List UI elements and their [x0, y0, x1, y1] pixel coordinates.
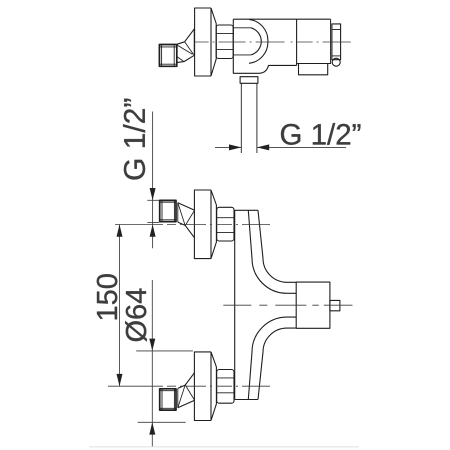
- label G 1/2 horizontal: [281, 123, 360, 145]
- faint page rule at bottom: [89, 446, 359, 448]
- side view: lever handle bar: [332, 24, 341, 60]
- side view: lever ball end: [332, 58, 340, 66]
- side view: wall flange disc: [195, 8, 211, 76]
- D64 top extension line: [136, 350, 193, 352]
- front view: body top edge: [235, 209, 258, 211]
- label 150: [97, 274, 118, 319]
- front view: top hex nut: [217, 207, 234, 241]
- front view: body bottom edge: [235, 399, 258, 401]
- label G 1/2 vertical: [123, 99, 145, 180]
- dimension: G 1/2 pipe, horizontal line: [215, 146, 346, 148]
- side view: body dome inner arc: [251, 28, 261, 55]
- arrow up D64 bottom: [149, 422, 155, 434]
- front view: bottom flange disc: [194, 352, 211, 421]
- side view: outlet pipe: [240, 83, 242, 153]
- dimension 150 line: [119, 225, 121, 387]
- front view: handle stub: [330, 300, 340, 310]
- dimension: G 1/2 vertical leader line: [152, 112, 154, 249]
- arrow up 150 top: [117, 225, 123, 237]
- side view: valve body: [233, 18, 330, 20]
- side view: hex nut: [216, 25, 233, 59]
- front view: top square nipple: [160, 200, 176, 221]
- arrow up at inlet line: [150, 225, 156, 237]
- front view: cartridge block: [296, 282, 330, 328]
- dimension D64 line: [151, 280, 153, 447]
- front view: bottom eccentric cone: [178, 373, 195, 408]
- front view: top arm outer edge: [248, 210, 296, 293]
- extension tick square bottom: [147, 222, 159, 224]
- front view: top inlet center line: [115, 224, 270, 226]
- side view: collar lines: [233, 28, 251, 55]
- arrow down at square top: [150, 188, 156, 200]
- front view: bottom arm outer edge: [248, 317, 296, 399]
- arrow down 150 bottom: [117, 374, 123, 386]
- front view: top eccentric cone: [178, 203, 195, 238]
- side view: center line: [195, 41, 351, 43]
- D64 bottom extension line: [138, 421, 186, 423]
- side view: under-hang block: [299, 64, 328, 75]
- front view: bottom hex nut: [217, 370, 234, 404]
- front view: bottom inlet center line: [108, 385, 270, 387]
- front view: main center line: [223, 304, 352, 306]
- front view: body bar left edge: [234, 210, 236, 399]
- side view: square thread nipple: [159, 45, 176, 67]
- front view: bottom arm inner edge: [258, 328, 297, 399]
- label D64: [125, 289, 147, 342]
- extension tick square top: [147, 199, 159, 201]
- arrow left at pipe right: [257, 144, 269, 150]
- arrow right at pipe left: [229, 144, 241, 150]
- front view: top flange disc: [194, 190, 211, 259]
- side view: body dome outer arc: [249, 19, 268, 63]
- front view: top arm inner edge: [258, 210, 297, 282]
- front view: bottom square nipple: [160, 389, 176, 410]
- arrow down D64 top: [149, 339, 155, 351]
- side view: outlet pipe nut: [240, 77, 258, 84]
- side view: eccentric cone: [177, 29, 195, 63]
